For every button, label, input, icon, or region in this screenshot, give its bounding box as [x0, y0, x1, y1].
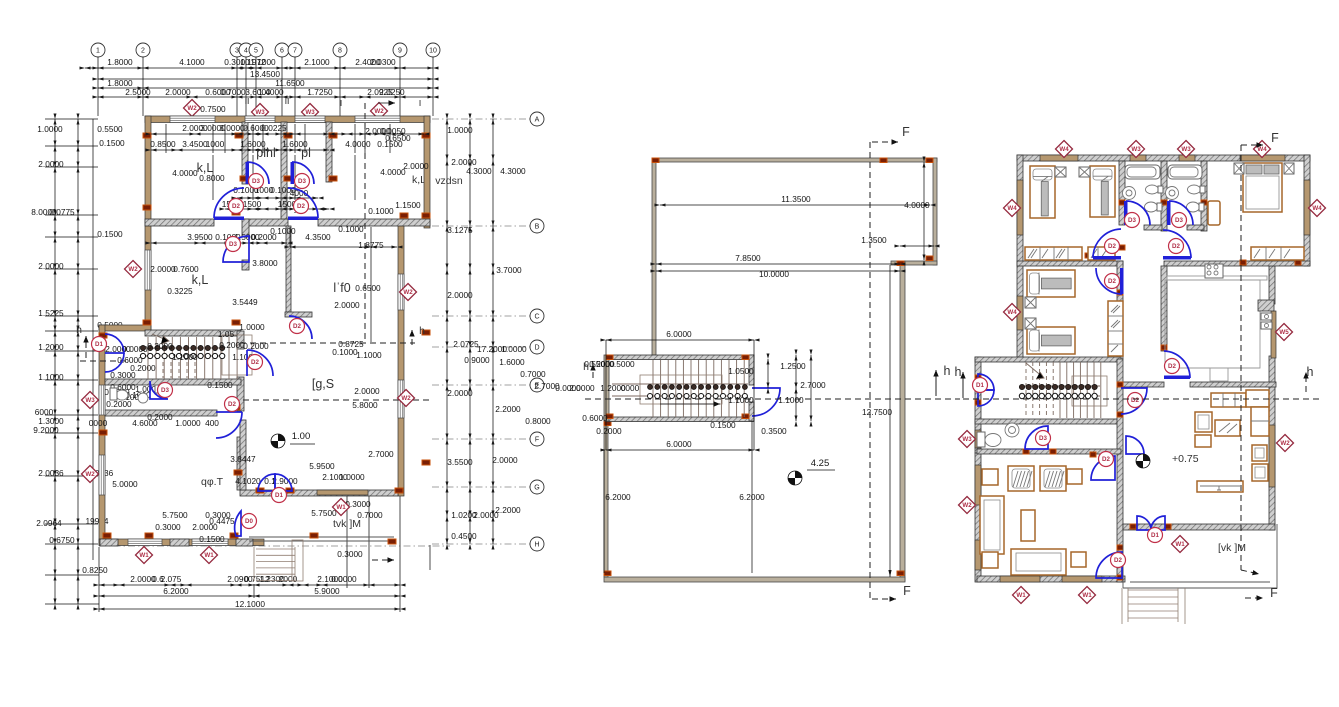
svg-text:D3: D3 [298, 178, 306, 185]
svg-text:G: G [534, 484, 539, 491]
middle plan stair treads [652, 360, 654, 417]
right plan level mark [1136, 454, 1150, 468]
svg-text:2.0000: 2.0000 [569, 383, 595, 393]
svg-text:D3: D3 [1175, 217, 1183, 224]
svg-text:1000: 1000 [206, 139, 225, 149]
middle plan dimensions [660, 204, 930, 206]
right plan kitchen [1167, 276, 1267, 280]
svg-text:h: h [955, 365, 962, 379]
svg-text:0.0225: 0.0225 [261, 123, 287, 133]
svg-text:2.2000: 2.2000 [495, 404, 521, 414]
svg-text:tvk ]M: tvk ]M [333, 518, 361, 530]
svg-text:1.0000: 1.0000 [37, 124, 63, 134]
svg-text:4.6000: 4.6000 [132, 418, 158, 428]
svg-text:6.0000: 6.0000 [666, 329, 692, 339]
middle plan level centroid [788, 471, 802, 485]
svg-text:3.7000: 3.7000 [496, 265, 522, 275]
middle plan section line F [869, 142, 871, 599]
svg-text:0.6500: 0.6500 [355, 283, 381, 293]
svg-text:1.0000: 1.0000 [447, 125, 473, 135]
svg-text:2.0000: 2.0000 [38, 159, 64, 169]
svg-text:plhl: plhl [256, 146, 275, 160]
svg-text:vzdsn: vzdsn [435, 175, 463, 187]
svg-text:W1: W1 [1082, 592, 1092, 599]
svg-text:W2: W2 [401, 395, 411, 402]
middle plan stair door arc [752, 388, 780, 416]
svg-text:0.3225: 0.3225 [167, 286, 193, 296]
svg-text:0.7000: 0.7000 [520, 369, 546, 379]
svg-text:4.3000: 4.3000 [500, 166, 526, 176]
left plan centroid symbol [271, 434, 285, 448]
svg-text:0.6500: 0.6500 [385, 133, 411, 143]
svg-text:2.075: 2.075 [161, 574, 182, 584]
svg-text:D: D [534, 344, 539, 351]
svg-text:D2: D2 [297, 203, 305, 210]
left plan interior walls [145, 219, 214, 226]
svg-text:0.8500: 0.8500 [150, 139, 176, 149]
svg-text:1.0500: 1.0500 [728, 366, 754, 376]
svg-text:W1: W1 [1175, 541, 1185, 548]
svg-text:3.8000: 3.8000 [252, 258, 278, 268]
svg-text:12.1000: 12.1000 [235, 599, 265, 609]
svg-text:D2: D2 [1108, 278, 1116, 285]
left plan left column connector lines [45, 118, 98, 120]
svg-text:[g,S: [g,S [312, 377, 334, 391]
svg-text:1.05: 1.05 [218, 329, 235, 339]
svg-text:D1: D1 [95, 341, 103, 348]
svg-text:1: 1 [96, 47, 100, 54]
left plan window diamonds on walls [125, 261, 142, 278]
svg-text:1.1000: 1.1000 [728, 395, 754, 405]
left plan door jambs [143, 205, 151, 210]
svg-text:4.3000: 4.3000 [466, 166, 492, 176]
svg-text:0.7000: 0.7000 [357, 510, 383, 520]
right plan door labels [1125, 213, 1140, 228]
svg-text:2.5000: 2.5000 [125, 87, 151, 97]
svg-text:qφ.T: qφ.T [201, 476, 224, 488]
svg-text:1.0000: 1.0000 [239, 322, 265, 332]
right plan furniture bedroom top-left [1030, 166, 1055, 218]
svg-text:D2: D2 [1168, 363, 1176, 370]
svg-text:4.0000: 4.0000 [904, 200, 930, 210]
svg-text:0.5500: 0.5500 [97, 124, 123, 134]
svg-text:1.3500: 1.3500 [861, 235, 887, 245]
svg-text:0.0000: 0.0000 [331, 574, 357, 584]
right plan window diamonds [1056, 141, 1073, 158]
svg-text:4.0000: 4.0000 [380, 167, 406, 177]
right plan interior walls [1017, 261, 1123, 266]
svg-text:D0: D0 [245, 518, 253, 525]
right plan window segments tan [1040, 155, 1078, 161]
svg-text:7.8500: 7.8500 [735, 253, 761, 263]
left plan dashed section lines [364, 103, 366, 343]
svg-text:0.1000: 0.1000 [332, 347, 358, 357]
svg-text:0000: 0000 [89, 418, 108, 428]
svg-text:0.8250: 0.8250 [82, 565, 108, 575]
svg-text:D2: D2 [1172, 243, 1180, 250]
svg-text:W2: W2 [962, 502, 972, 509]
svg-text:0000: 0000 [621, 383, 640, 393]
svg-text:0.3500: 0.3500 [761, 426, 787, 436]
svg-text:0.4500: 0.4500 [451, 531, 477, 541]
svg-text:1.4000: 1.4000 [258, 87, 284, 97]
svg-text:D2: D2 [1102, 456, 1110, 463]
svg-text:k,L: k,L [192, 273, 209, 287]
svg-text:0.3000: 0.3000 [337, 549, 363, 559]
svg-text:0.6000: 0.6000 [582, 413, 608, 423]
svg-text:+0.75: +0.75 [1172, 453, 1199, 465]
left plan door arcs blue [246, 162, 250, 184]
right plan section line F [1240, 145, 1242, 570]
svg-text:10.0000: 10.0000 [759, 269, 789, 279]
svg-text:W4: W4 [1007, 205, 1017, 212]
svg-text:H: H [534, 541, 539, 548]
svg-text:D2: D2 [1108, 243, 1116, 250]
svg-text:W1: W1 [1016, 592, 1026, 599]
svg-text:1.6000: 1.6000 [499, 357, 525, 367]
svg-text:2.2000: 2.2000 [495, 505, 521, 515]
svg-text:I: I [419, 98, 421, 108]
svg-text:W4: W4 [1312, 205, 1322, 212]
svg-text:5.0000: 5.0000 [112, 479, 138, 489]
svg-text:5.7500: 5.7500 [311, 508, 337, 518]
right plan exterior stair [1128, 589, 1178, 591]
middle plan h section markers [585, 398, 960, 400]
svg-text:2.0000: 2.0000 [150, 264, 176, 274]
svg-text:0.1000: 0.1000 [270, 226, 296, 236]
svg-text:[vk ]M: [vk ]M [1218, 542, 1246, 554]
svg-text:2.0000: 2.0000 [447, 388, 473, 398]
svg-text:1.2000: 1.2000 [38, 342, 64, 352]
svg-text:0.0775: 0.0775 [49, 207, 75, 217]
svg-text:2.0000: 2.0000 [38, 261, 64, 271]
svg-text:0.3000: 0.3000 [155, 522, 181, 532]
right plan exterior walls [1017, 155, 1310, 161]
svg-text:W3: W3 [962, 436, 972, 443]
svg-text:D3: D3 [252, 178, 260, 185]
right plan toilet room [977, 432, 985, 447]
svg-text:19964: 19964 [85, 516, 108, 526]
svg-text:1.8000: 1.8000 [107, 57, 133, 67]
middle plan outline walls [652, 158, 937, 162]
svg-text:0.1500: 0.1500 [199, 534, 225, 544]
svg-text:W2: W2 [128, 266, 138, 273]
svg-text:2.0250: 2.0250 [379, 87, 405, 97]
svg-text:0.1000: 0.1000 [368, 206, 394, 216]
svg-text:4.0000: 4.0000 [345, 139, 371, 149]
right plan bathrooms fixtures [1125, 165, 1160, 179]
left plan left dimension column [54, 119, 56, 604]
svg-text:D2: D2 [1114, 557, 1122, 564]
svg-text:F: F [903, 584, 911, 598]
svg-text:0.2000: 0.2000 [219, 340, 245, 350]
right plan door arcs [1093, 256, 1121, 260]
svg-text:10: 10 [429, 47, 437, 54]
svg-text:3: 3 [235, 47, 239, 54]
svg-text:2: 2 [141, 47, 145, 54]
svg-text:F: F [535, 436, 539, 443]
svg-text:4.1020: 4.1020 [235, 476, 261, 486]
right plan terrace bottom-right [1122, 530, 1124, 588]
svg-text:8: 8 [338, 47, 342, 54]
svg-text:0.7000: 0.7000 [220, 87, 246, 97]
right plan bedroom top-right [1243, 163, 1282, 212]
right plan closets top-left [1025, 247, 1082, 260]
svg-text:5.9000: 5.9000 [314, 586, 340, 596]
svg-text:W2: W2 [374, 108, 384, 115]
svg-text:D2: D2 [1131, 397, 1139, 404]
right plan living bottom-left furniture [1008, 466, 1034, 491]
svg-text:W4: W4 [1007, 309, 1017, 316]
svg-text:2.7000: 2.7000 [800, 380, 826, 390]
svg-text:2.0000: 2.0000 [403, 161, 429, 171]
svg-text:D2: D2 [293, 323, 301, 330]
middle plan stair box [606, 355, 754, 360]
svg-text:2.0000: 2.0000 [354, 386, 380, 396]
svg-text:0.1000: 0.1000 [338, 224, 364, 234]
svg-text:A: A [535, 116, 540, 123]
svg-text:1.00: 1.00 [292, 431, 311, 442]
right plan bedroom mid-left [1027, 270, 1075, 297]
svg-text:0.1500: 0.1500 [99, 138, 125, 148]
svg-text:F: F [902, 125, 910, 139]
left plan bathroom fixtures [116, 390, 128, 400]
left plan door labels [229, 199, 244, 214]
svg-text:0.1500: 0.1500 [207, 380, 233, 390]
svg-text:6.2000: 6.2000 [605, 492, 631, 502]
svg-text:3.8447: 3.8447 [230, 454, 256, 464]
left plan stair [147, 337, 149, 379]
svg-text:2.0000: 2.0000 [165, 87, 191, 97]
svg-text:1.1000: 1.1000 [38, 372, 64, 382]
svg-text:0.9000: 0.9000 [464, 355, 490, 365]
svg-text:0.2000: 0.2000 [147, 341, 173, 351]
svg-text:3.9500: 3.9500 [187, 232, 213, 242]
svg-text:0.5000: 0.5000 [609, 359, 635, 369]
svg-text:D3: D3 [161, 387, 169, 394]
svg-text:2.0725: 2.0725 [453, 339, 479, 349]
svg-text:W4: W4 [1257, 146, 1267, 153]
svg-text:5.7500: 5.7500 [162, 510, 188, 520]
svg-text:W3: W3 [85, 397, 95, 404]
svg-text:2.7000: 2.7000 [368, 449, 394, 459]
svg-text:W3: W3 [255, 109, 265, 116]
svg-text:2.0000: 2.0000 [492, 455, 518, 465]
svg-text:D1: D1 [275, 492, 283, 499]
svg-text:3.0000: 3.0000 [219, 123, 245, 133]
svg-text:W3: W3 [1181, 146, 1191, 153]
left plan exterior walls [145, 116, 430, 123]
svg-text:2.0036: 2.0036 [38, 468, 64, 478]
right plan door jambs [1119, 200, 1125, 205]
svg-text:3.1275: 3.1275 [447, 225, 473, 235]
svg-text:W5: W5 [1279, 329, 1289, 336]
svg-text:5.9500: 5.9500 [309, 461, 335, 471]
svg-text:0.8000: 0.8000 [525, 416, 551, 426]
svg-text:9: 9 [398, 47, 402, 54]
right plan stair [1025, 362, 1027, 418]
svg-text:II: II [245, 96, 250, 106]
svg-text:W1: W1 [336, 504, 346, 511]
left plan right dimension column [446, 119, 448, 544]
svg-text:4: 4 [244, 47, 248, 54]
right plan living bottom-right furniture [1211, 393, 1246, 407]
svg-text:1.0000: 1.0000 [175, 418, 201, 428]
svg-text:3.4500: 3.4500 [182, 139, 208, 149]
svg-text:W3: W3 [305, 109, 315, 116]
left plan windows white gaps [170, 116, 215, 123]
svg-text:6.2000: 6.2000 [163, 586, 189, 596]
svg-text:6: 6 [280, 47, 284, 54]
svg-text:3.5500: 3.5500 [447, 457, 473, 467]
svg-text:1.1500: 1.1500 [395, 200, 421, 210]
svg-text:9.2000: 9.2000 [33, 425, 59, 435]
svg-text:W3: W3 [1131, 146, 1141, 153]
svg-text:D2: D2 [228, 401, 236, 408]
svg-text:W2: W2 [85, 471, 95, 478]
svg-text:h: h [583, 361, 589, 373]
svg-text:1.5225: 1.5225 [38, 308, 64, 318]
svg-text:F: F [1270, 586, 1278, 600]
svg-text:1.1000: 1.1000 [172, 352, 198, 362]
svg-text:F: F [1271, 131, 1279, 145]
svg-text:D2: D2 [251, 359, 259, 366]
svg-text:C: C [534, 313, 539, 320]
svg-text:D3: D3 [229, 241, 237, 248]
svg-text:h: h [76, 324, 82, 336]
svg-text:12.7500: 12.7500 [862, 407, 892, 417]
svg-text:I: I [340, 98, 342, 108]
svg-text:D2: D2 [232, 203, 240, 210]
svg-text:B: B [535, 223, 540, 230]
svg-text:2.1000: 2.1000 [304, 57, 330, 67]
svg-text:6.0000: 6.0000 [666, 439, 692, 449]
svg-text:400: 400 [205, 418, 219, 428]
svg-text:1.7250: 1.7250 [307, 87, 333, 97]
svg-text:W2: W2 [1280, 440, 1290, 447]
svg-text:h: h [944, 364, 951, 378]
svg-text:W2: W2 [187, 105, 197, 112]
svg-text:0.2000: 0.2000 [596, 426, 622, 436]
left plan lf0 dim lines [290, 246, 397, 248]
svg-text:0.1500: 0.1500 [97, 229, 123, 239]
left plan interior dim lines [151, 133, 424, 135]
svg-text:11.3500: 11.3500 [781, 194, 811, 204]
svg-text:W1: W1 [139, 552, 149, 559]
svg-text:k,L: k,L [197, 161, 214, 175]
svg-text:II: II [285, 96, 290, 106]
svg-text:0.7500: 0.7500 [200, 104, 226, 114]
svg-text:4.3500: 4.3500 [305, 232, 331, 242]
svg-text:D1: D1 [976, 382, 984, 389]
svg-text:2.0000: 2.0000 [192, 522, 218, 532]
svg-text:5.8000: 5.8000 [352, 400, 378, 410]
svg-text:lˈf0: lˈf0 [333, 281, 350, 295]
svg-text:6.2000: 6.2000 [739, 492, 765, 502]
svg-text:7: 7 [293, 47, 297, 54]
middle plan corner blocks [652, 158, 659, 163]
svg-text:D3: D3 [1128, 217, 1136, 224]
svg-text:1.0000: 1.0000 [501, 344, 527, 354]
svg-text:1.0000: 1.0000 [339, 472, 365, 482]
svg-text:0.3000: 0.3000 [110, 370, 136, 380]
svg-text:W2: W2 [403, 289, 413, 296]
svg-text:2.0300: 2.0300 [370, 57, 396, 67]
left plan exterior stair bottom [256, 548, 295, 550]
svg-text:h: h [419, 325, 425, 337]
svg-text:5: 5 [254, 47, 258, 54]
left plan grid bubbles right A-H [530, 112, 544, 126]
svg-text:4.25: 4.25 [811, 458, 830, 469]
svg-text:pl: pl [301, 146, 311, 160]
left plan grid bubbles top [91, 43, 105, 57]
svg-text:W1: W1 [204, 552, 214, 559]
left plan top dimension rows [85, 67, 433, 69]
svg-text:2.0000: 2.0000 [334, 300, 360, 310]
left plan extension lines top rooms [165, 124, 167, 153]
svg-text:1.1000: 1.1000 [250, 57, 276, 67]
svg-text:W4: W4 [1059, 146, 1069, 153]
svg-text:1.2500: 1.2500 [780, 361, 806, 371]
svg-text:1500: 1500 [243, 199, 262, 209]
svg-text:D1: D1 [1151, 532, 1159, 539]
svg-text:0.6750: 0.6750 [49, 535, 75, 545]
svg-text:1.1000: 1.1000 [778, 395, 804, 405]
svg-text:4.1000: 4.1000 [179, 57, 205, 67]
left plan bottom dimension rows [99, 584, 400, 586]
svg-text:2.0964: 2.0964 [36, 518, 62, 528]
svg-text:2.0000: 2.0000 [447, 290, 473, 300]
left plan window marks W row [184, 100, 201, 117]
svg-text:4.0000: 4.0000 [172, 168, 198, 178]
svg-text:3.5449: 3.5449 [232, 297, 258, 307]
svg-text:1.1000: 1.1000 [356, 350, 382, 360]
svg-text:D3: D3 [1039, 435, 1047, 442]
svg-text:0.1500: 0.1500 [710, 420, 736, 430]
